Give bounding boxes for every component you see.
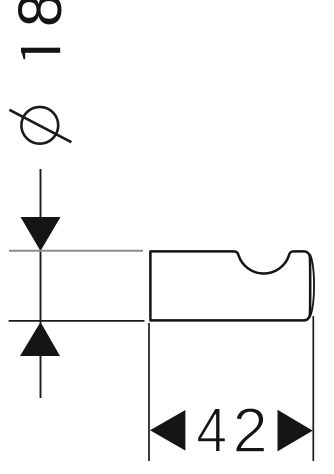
- arrowhead right (42 dimension): [278, 410, 313, 452]
- extension line top of hook (gray): [9, 250, 143, 252]
- wire: vertical dimension line for 18: [40, 169, 42, 398]
- svg-text:2: 2: [233, 396, 268, 466]
- svg-text:8: 8: [6, 0, 75, 27]
- arrowhead left (42 dimension): [150, 410, 185, 451]
- extension line left (42 dimension): [148, 323, 150, 461]
- extension line bottom of hook: [9, 320, 145, 322]
- arrowhead down (18 dimension, top): [21, 217, 61, 251]
- svg-text:4: 4: [196, 395, 227, 466]
- hook body outline: [150, 251, 310, 320]
- dimension text 18 (rotated): digit 1: [21, 48, 60, 60]
- diameter symbol of label "⌀ 18": [9, 107, 71, 144]
- arrowhead up (18 dimension, bottom): [20, 322, 60, 356]
- hook end-cap rim arc: [310, 254, 314, 317]
- extension line right (42 dimension): [312, 316, 314, 461]
